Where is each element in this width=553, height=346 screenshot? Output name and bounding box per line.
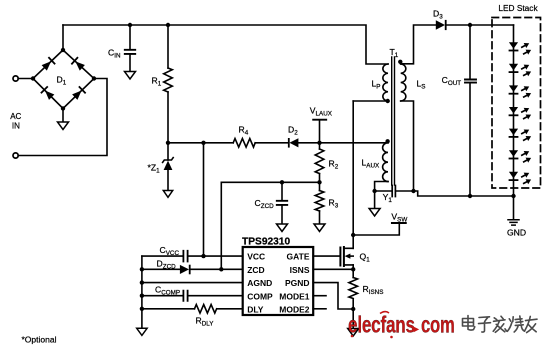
wire Ls bottom [401, 101, 414, 191]
transformer secondary Ls [401, 64, 406, 101]
transformer auxiliary Laux [383, 143, 388, 182]
svg-text:GND: GND [507, 228, 526, 238]
wire Laux bottom [375, 182, 388, 192]
diode DZCD [180, 265, 191, 275]
node bus-AGND [140, 280, 144, 284]
terminal VSW [353, 223, 406, 235]
resistor RDLY [195, 305, 217, 314]
svg-text:COMP: COMP [247, 291, 273, 301]
wire vertical to VCC pin line [203, 143, 205, 256]
node Ls phase dot [398, 60, 402, 64]
ground at bridge bottom [58, 109, 69, 130]
wire top rail from bridge to transformer primary [63, 25, 388, 64]
wire Lp bottom [353, 100, 388, 102]
wire drain vertical (Lp bottom to Q1) [352, 101, 354, 248]
resistor RISNS [349, 265, 358, 309]
node VSW tap [351, 233, 355, 237]
node CZCD tap [280, 180, 284, 184]
node Lp phase dot [386, 99, 390, 103]
LED stack dashed box [492, 18, 541, 189]
svg-text:MODE2: MODE2 [279, 304, 310, 314]
node COUT bottom [468, 194, 472, 198]
node ZCD junction [219, 267, 223, 271]
svg-text:MODE1: MODE1 [279, 291, 310, 301]
node bridge left [31, 76, 35, 80]
svg-text:PGND: PGND [285, 278, 310, 288]
svg-text:DLY: DLY [247, 304, 264, 314]
resistor R2 [315, 143, 324, 183]
resistor R1 [164, 25, 173, 143]
ground GND earth symbol [508, 196, 519, 225]
transformer core [392, 57, 395, 185]
node bus-COMP [140, 294, 144, 298]
diode bridge D1 [33, 50, 94, 109]
ground at bus bottom [137, 328, 147, 335]
ground below R3 [314, 224, 325, 232]
capacitor CVCC [183, 251, 187, 262]
svg-text:ISNS: ISNS [290, 265, 310, 275]
transformer T1 primary Lp [383, 64, 388, 101]
capacitor CIN [125, 25, 135, 72]
node R1 top [166, 23, 170, 27]
capacitor COUT [465, 25, 476, 196]
svg-text:com: com [421, 313, 455, 338]
wire MODE2 stub [313, 308, 326, 310]
svg-text:TPS92310: TPS92310 [242, 236, 290, 247]
node R1 bottom [166, 141, 170, 145]
capacitor CZCD [277, 182, 287, 224]
svg-text:elecfans: elecfans [348, 312, 415, 338]
wire bottom rail [414, 191, 514, 196]
svg-text:ZCD: ZCD [247, 265, 264, 275]
resistor R3 [315, 182, 324, 224]
diode D3 [436, 20, 447, 30]
node Y1 left [372, 189, 376, 193]
node junction VCC line drop [201, 141, 205, 145]
node R2-R3 junction [317, 180, 321, 184]
svg-text:IN: IN [12, 121, 20, 130]
wire MODE1 stub [313, 295, 326, 297]
svg-text:AGND: AGND [247, 278, 272, 288]
wire ISNS line [313, 268, 353, 270]
svg-text:VCC: VCC [247, 252, 265, 262]
ground below Y1 left node [369, 191, 380, 216]
wire VCC line [142, 255, 243, 257]
node bridge bottom [61, 106, 65, 110]
node VCC junction [201, 254, 205, 258]
diode D2 [288, 138, 299, 148]
node LED bottom [511, 194, 515, 198]
node COUT top [468, 23, 472, 27]
wire ZCD line [142, 268, 243, 270]
wire COMP line [142, 295, 243, 297]
wire DLY line [142, 308, 243, 310]
ground below CZCD [277, 224, 288, 232]
capacitor Y1 [375, 186, 414, 197]
wire AGND line [142, 282, 243, 284]
zener diode Z1 [163, 143, 174, 191]
terminal VLAUX [313, 120, 326, 143]
capacitor CCOMP [183, 291, 187, 301]
svg-text:AC: AC [10, 112, 21, 121]
wire Ls top to D3 [401, 25, 436, 64]
wire LED chain [513, 25, 515, 196]
wire AC top to bridge [18, 78, 33, 80]
ground below RISNS [348, 309, 359, 336]
wire GATE line [313, 255, 339, 257]
node Y1 right [411, 189, 415, 193]
node Laux phase dot [385, 139, 389, 143]
wire D3 to LED stack [447, 24, 514, 26]
ground below CIN [125, 72, 136, 80]
LED string (7 LEDs) [509, 41, 533, 186]
node Q1 source / ISNS [351, 267, 355, 271]
wire ZCD sense line [221, 182, 319, 269]
svg-text:GATE: GATE [287, 252, 310, 262]
wire mid rail (R1 node to LAUX) [168, 142, 388, 144]
node bridge right [92, 76, 96, 80]
svg-text:*Optional: *Optional [22, 335, 57, 345]
node bridge top [61, 48, 65, 52]
svg-text:LED Stack: LED Stack [498, 3, 538, 13]
node RISNS bottom [351, 307, 355, 311]
resistor R4 [233, 139, 255, 148]
wire left bus [141, 256, 143, 328]
terminal AC input bottom [13, 153, 18, 158]
node VLAUX junction [317, 141, 321, 145]
node bus-DLY [140, 307, 144, 311]
wire bridge right to AC bottom [18, 79, 107, 156]
node CIN top [128, 23, 132, 27]
transistor Q1 [340, 247, 353, 266]
watermark elecfans.com [348, 312, 455, 339]
ground below Z1 [163, 191, 172, 198]
watermark Chinese brand glyphs [463, 316, 538, 333]
node bus-ZCD [140, 267, 144, 271]
terminal AC input top [13, 76, 18, 81]
op-amp U1 TPS92310 IC box [243, 247, 314, 315]
wire PGND line [313, 283, 353, 309]
wire bridge top to rail [62, 25, 64, 50]
